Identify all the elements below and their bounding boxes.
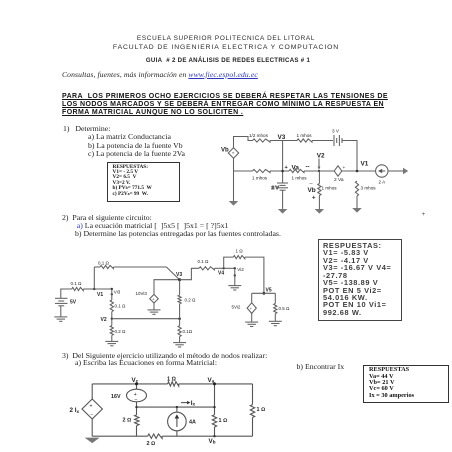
wire diamond to ground left xyxy=(233,158,235,201)
wire 2 ohm to bottom rail xyxy=(136,426,138,437)
wire Vc to 16V xyxy=(136,384,138,389)
resistor 1 mhos middle-right (Va) xyxy=(289,169,304,172)
wire current source to right arrow end xyxy=(388,170,403,172)
junction dot V3 xyxy=(178,278,181,281)
svg-text:Vc: Vc xyxy=(132,377,139,384)
wire 4A bottom xyxy=(176,431,178,436)
svg-text:1 mhos: 1 mhos xyxy=(292,176,308,181)
svg-text:Va: Va xyxy=(208,377,215,384)
probe dot under Vi2 xyxy=(234,274,236,276)
svg-text:V1: V1 xyxy=(361,161,369,168)
svg-text:3 mhos: 3 mhos xyxy=(361,186,377,191)
svg-text:0.1Ω: 0.1Ω xyxy=(183,329,193,334)
svg-text:1/2 mhos: 1/2 mhos xyxy=(249,133,269,138)
wire diamond bottom xyxy=(91,419,93,436)
V2 pointer arrow xyxy=(318,159,321,171)
junction dot V2 xyxy=(111,318,113,320)
svg-text:V2: V2 xyxy=(101,317,107,323)
svg-text:+: + xyxy=(312,196,316,202)
junction dot V1 xyxy=(356,170,359,173)
svg-text:2 V: 2 V xyxy=(272,185,280,191)
wire 16V to middle junction xyxy=(136,402,138,415)
junction dot under V3 xyxy=(281,170,284,173)
junction dot 4A top xyxy=(176,406,178,408)
resistor 0.1 ohm V3-V4 xyxy=(199,267,214,270)
svg-text:1 Ω: 1 Ω xyxy=(167,377,177,383)
dot Vi2 xyxy=(234,267,236,269)
wire to battery 3V xyxy=(312,140,333,142)
svg-text:1 Ω: 1 Ω xyxy=(219,418,228,424)
wire 10Vi3 to ground xyxy=(153,303,155,310)
svg-text:Vi2: Vi2 xyxy=(237,267,244,272)
wire 0.5 ohm to ground xyxy=(274,314,276,322)
node V3 vertical wire xyxy=(282,141,284,183)
svg-text:0.2 Ω: 0.2 Ω xyxy=(115,329,127,334)
svg-text:+: + xyxy=(343,166,346,171)
wire to V2 junction xyxy=(304,170,334,172)
wire battery bottom to ground xyxy=(60,306,62,317)
svg-text:0.2 Ω: 0.2 Ω xyxy=(185,298,197,303)
svg-text:Vb: Vb xyxy=(209,438,216,445)
junction dot middle left xyxy=(135,406,137,408)
wire to ground V2 branch xyxy=(318,196,320,210)
svg-text:0.1 Ω: 0.1 Ω xyxy=(98,261,110,266)
svg-text:Vb: Vb xyxy=(221,148,229,154)
svg-text:−: − xyxy=(134,397,137,403)
wire diamond 2Va to V1 xyxy=(342,170,376,172)
wire V3 to 10Vi3 source xyxy=(154,280,180,295)
resistor 0.2 ohm below V2 xyxy=(111,319,113,326)
dependent source 2Ix diamond xyxy=(82,399,102,419)
svg-text:Vi3: Vi3 xyxy=(114,290,121,295)
resistor 1 ohm top (red label) xyxy=(168,382,179,386)
middle wire xyxy=(137,406,215,408)
svg-text:V2: V2 xyxy=(317,153,325,160)
resistor 1 ohm right xyxy=(250,405,254,418)
svg-text:1 Ω: 1 Ω xyxy=(236,249,244,254)
bottom rail left xyxy=(92,435,148,437)
ground V2 branch xyxy=(315,209,325,214)
resistor 0.1 ohm left horizontal xyxy=(72,287,84,290)
wire diamond top xyxy=(91,384,93,399)
svg-text:5Vi2: 5Vi2 xyxy=(232,305,241,310)
resistor 0.2 ohm below V3 xyxy=(179,280,181,296)
V2 horizontal wire xyxy=(112,318,180,320)
wire to V2 xyxy=(111,312,113,319)
svg-text:2 Ω: 2 Ω xyxy=(147,441,156,447)
ground V1 branch xyxy=(352,208,362,213)
svg-text:V4: V4 xyxy=(218,271,224,277)
svg-text:V5: V5 xyxy=(266,288,272,294)
node dot Vc xyxy=(135,382,138,385)
wire Vi3 down xyxy=(111,289,113,300)
top rail right xyxy=(179,383,253,385)
dependent source 5Vi2 diamond xyxy=(247,303,256,314)
svg-text:Ix: Ix xyxy=(191,400,196,407)
ground below V3 chain xyxy=(173,342,186,344)
wire to V1 xyxy=(83,288,94,290)
resistor 0.1 ohm top rail xyxy=(94,266,100,268)
svg-text:+: + xyxy=(285,165,288,171)
svg-text:2 Ix: 2 Ix xyxy=(70,407,80,414)
resistor 0.5 ohm xyxy=(274,304,277,314)
wire Vi2 to ground xyxy=(234,268,236,285)
right arrow termination xyxy=(403,168,408,174)
top rail left xyxy=(92,383,167,385)
bottom rail right xyxy=(162,435,252,437)
wire V1 up to top rail xyxy=(93,267,95,289)
wire V4 up to 1 ohm xyxy=(224,257,234,268)
svg-text:1 mhos: 1 mhos xyxy=(297,133,313,138)
svg-text:2 Ω: 2 Ω xyxy=(123,418,132,424)
ground under 10Vi3 xyxy=(148,309,161,311)
ground under 5V battery xyxy=(54,316,67,318)
wire right bottom xyxy=(252,418,254,437)
wire to node V3 xyxy=(270,140,297,142)
junction dot V5 xyxy=(263,292,266,295)
ground under 0.5 ohm xyxy=(269,320,282,322)
wire to V4 xyxy=(214,267,223,269)
svg-text:5V: 5V xyxy=(70,300,77,306)
resistor 2 ohm below 16V xyxy=(135,415,139,426)
battery 3V xyxy=(334,135,342,146)
junction dot Va middle xyxy=(213,406,215,408)
svg-text:V1: V1 xyxy=(97,292,103,298)
resistor 3 mhos V1 branch xyxy=(355,181,358,196)
svg-text:1 mhos: 1 mhos xyxy=(252,176,268,181)
resistor 1 ohm top xyxy=(233,256,244,259)
svg-text:Vb: Vb xyxy=(308,187,316,194)
top rail wire to diagonal into V3 xyxy=(113,267,179,280)
wire V5 to 0.5 ohm xyxy=(274,293,276,303)
middle wire left xyxy=(234,170,253,172)
wire 4A top xyxy=(176,407,178,412)
junction dot V2 xyxy=(318,170,320,172)
battery 5V plates xyxy=(55,298,68,306)
wire 1 ohm down to V5 xyxy=(245,257,264,293)
ground under Vi2 xyxy=(228,285,241,287)
svg-text:4A: 4A xyxy=(189,420,196,426)
wire 5Vi2 to ground xyxy=(251,313,253,322)
svg-text:2 Va: 2 Va xyxy=(334,177,344,183)
junction dot right of V2 wire xyxy=(178,317,181,320)
probe dot Vi3 xyxy=(111,293,113,295)
wire battery 2V to ground xyxy=(282,190,284,209)
wire V5 to 5Vi2 source xyxy=(251,293,253,303)
resistor 0.1 ohm below junction xyxy=(179,319,181,326)
svg-text:0.5 Ω: 0.5 Ω xyxy=(279,306,291,311)
svg-text:+: + xyxy=(90,404,93,410)
ground under 2Ix xyxy=(85,438,100,444)
ground under 5Vi2 xyxy=(245,321,258,323)
current source 4A circle xyxy=(168,412,187,431)
wire V1 to Vi3 xyxy=(94,288,112,290)
wire to junction under V3 xyxy=(270,170,289,172)
junction dot V1 xyxy=(93,288,95,290)
svg-text:1 Ω: 1 Ω xyxy=(257,407,266,413)
svg-text:0.1 Ω: 0.1 Ω xyxy=(71,281,83,286)
wire V1 branch to ground xyxy=(356,196,358,208)
wire V2 down xyxy=(318,171,320,184)
svg-text:−: − xyxy=(91,413,94,419)
node dot Va xyxy=(213,382,216,385)
resistor 2 ohm bottom xyxy=(148,434,162,438)
svg-text:16V: 16V xyxy=(111,394,121,400)
resistor 1/2 mhos top xyxy=(253,139,271,142)
wire battery to corner down to V1 xyxy=(342,141,357,172)
right edge down xyxy=(252,384,254,405)
Va vertical wire xyxy=(214,384,216,415)
wire battery top to horizontal xyxy=(61,289,72,298)
wire Va branch bottom xyxy=(214,427,216,436)
current source 2A circle xyxy=(376,165,388,177)
resistor 1 mhos middle-left xyxy=(253,169,271,172)
dependent source 2Va diamond xyxy=(334,166,342,176)
wire V3 right and up xyxy=(180,268,199,279)
wire top-left corner xyxy=(234,137,253,149)
svg-text:V3: V3 xyxy=(176,272,182,278)
dependent source 10Vi3 diamond xyxy=(150,294,159,303)
svg-text:V3: V3 xyxy=(278,134,286,141)
V5 horizontal wire xyxy=(252,292,276,294)
resistor 0.1 ohm Vi3 branch xyxy=(110,300,113,312)
battery 2V xyxy=(277,183,288,190)
source 16V ellipse xyxy=(127,389,147,402)
wire to junction xyxy=(179,304,181,319)
ground left arrow xyxy=(229,201,238,206)
resistor 1 mhos top xyxy=(297,139,312,142)
svg-text:--: -- xyxy=(306,165,310,171)
svg-text:0.1 Ω: 0.1 Ω xyxy=(115,304,127,309)
svg-text:2 A: 2 A xyxy=(379,180,387,185)
resistor 1 ohm Va branch xyxy=(212,415,216,427)
svg-text:10Vi3: 10Vi3 xyxy=(136,291,148,296)
junction dot Vb xyxy=(213,435,215,437)
wire to ground below V2 xyxy=(111,335,113,341)
svg-text:Va: Va xyxy=(292,165,300,172)
svg-text:1 mhos: 1 mhos xyxy=(322,186,338,191)
junction dot Vi3 xyxy=(111,288,113,290)
svg-text:0.1 Ω: 0.1 Ω xyxy=(198,259,210,264)
svg-text:_: _ xyxy=(309,179,314,185)
ground below V2 xyxy=(105,340,118,342)
Ix arrow xyxy=(181,401,191,404)
wire V4 to Vi2 point xyxy=(224,267,235,269)
resistor 1 mhos V2 branch xyxy=(318,184,321,196)
wire to ground below xyxy=(179,337,181,343)
dependent source Vb diamond left xyxy=(228,148,238,158)
ground under battery 2V xyxy=(278,209,288,214)
junction dot V4 xyxy=(223,267,225,269)
svg-text:+: + xyxy=(232,151,235,156)
svg-text:3 V: 3 V xyxy=(332,129,340,134)
